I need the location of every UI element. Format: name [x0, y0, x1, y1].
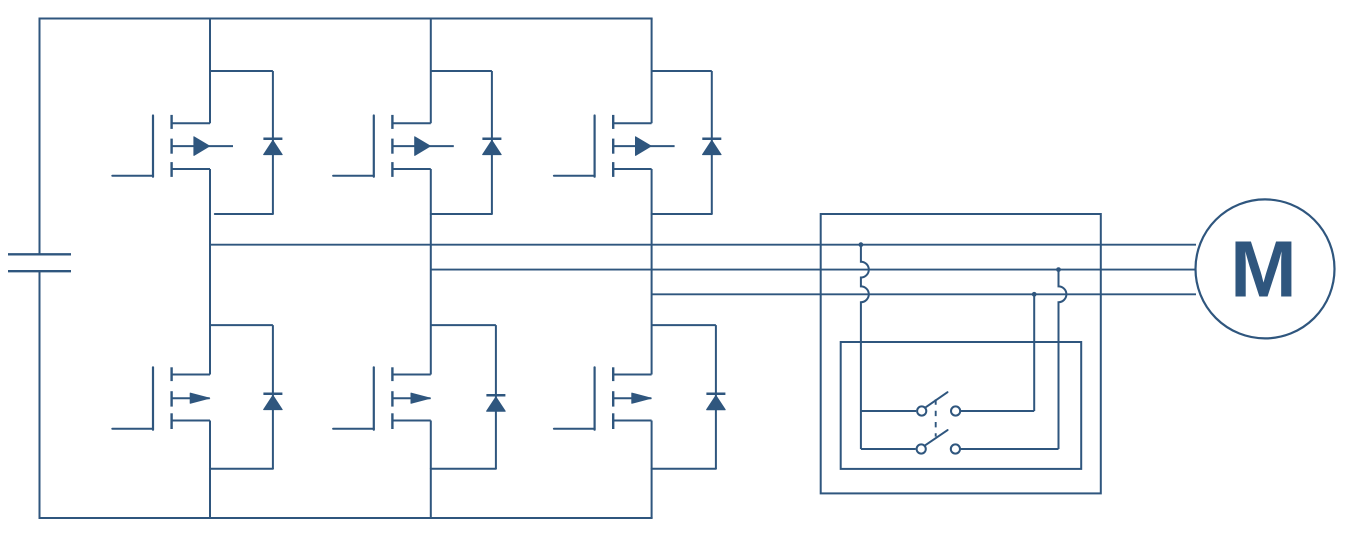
wire leg 3 phase node vertical: [651, 169, 653, 375]
wire DC+ top bus: [39, 18, 653, 20]
switch linkage (dashed): [935, 399, 937, 436]
diode D1 freewheel: [210, 71, 282, 214]
switch S1 blade: [925, 392, 947, 407]
wire switch S1 to riser: [960, 410, 1034, 412]
wire to switch S1 pole: [861, 410, 916, 412]
transistor Q1 high-side: [112, 115, 233, 177]
switch S2 right contact: [951, 444, 960, 453]
wire riser to phase C: [1033, 294, 1035, 411]
transistor Q3 high-side: [554, 115, 675, 177]
wire DC- bottom bus: [39, 517, 653, 519]
wire riser to phase B (hops over C): [1059, 270, 1067, 449]
wire DC+ left vertical: [39, 18, 41, 255]
wire switch S2 to riser: [960, 448, 1059, 450]
switch block inner box: [841, 342, 1081, 469]
wire leg 2 phase node vertical: [430, 169, 432, 375]
wire leg 2 drain to DC+: [430, 19, 432, 124]
node phase B junction: [1056, 267, 1061, 272]
wire leg 1 phase node vertical: [209, 169, 211, 375]
diode D4 freewheel: [210, 325, 282, 469]
transistor Q5 low-side: [333, 367, 431, 429]
diode D5 freewheel: [431, 325, 506, 469]
wire DC- left vertical: [39, 271, 41, 518]
svg-text:M: M: [1230, 225, 1297, 314]
diode D6 freewheel: [652, 325, 726, 469]
wire phase A feed down (hops over B and C): [861, 245, 869, 449]
switch S2 left contact: [917, 444, 926, 453]
transistor Q2 high-side: [333, 115, 454, 177]
switch block outer box: [821, 214, 1101, 493]
node phase A tap: [859, 242, 864, 247]
wire to switch S2 pole: [861, 448, 916, 450]
wire leg 2 source to DC-: [430, 421, 432, 519]
switch S1 left contact: [917, 406, 926, 415]
diode D3 freewheel: [652, 71, 722, 214]
switch S1 right contact: [951, 406, 960, 415]
node phase C junction: [1032, 292, 1037, 297]
wire phase A: [210, 244, 1196, 246]
motor M1 circle: [1196, 199, 1335, 338]
transistor Q6 low-side: [554, 367, 652, 429]
wire phase B: [431, 269, 1196, 271]
transistor Q4 low-side: [112, 367, 210, 429]
wire leg 1 source to DC-: [209, 421, 211, 519]
diode D2 freewheel: [431, 71, 502, 214]
switch S2 blade: [925, 430, 948, 446]
wire leg 1 drain to DC+: [209, 19, 211, 124]
capacitor C1 (DC link): [8, 254, 71, 271]
wire phase C: [652, 293, 1196, 295]
wire leg 3 drain to DC+: [651, 19, 653, 124]
wire leg 3 source to DC-: [651, 421, 653, 519]
